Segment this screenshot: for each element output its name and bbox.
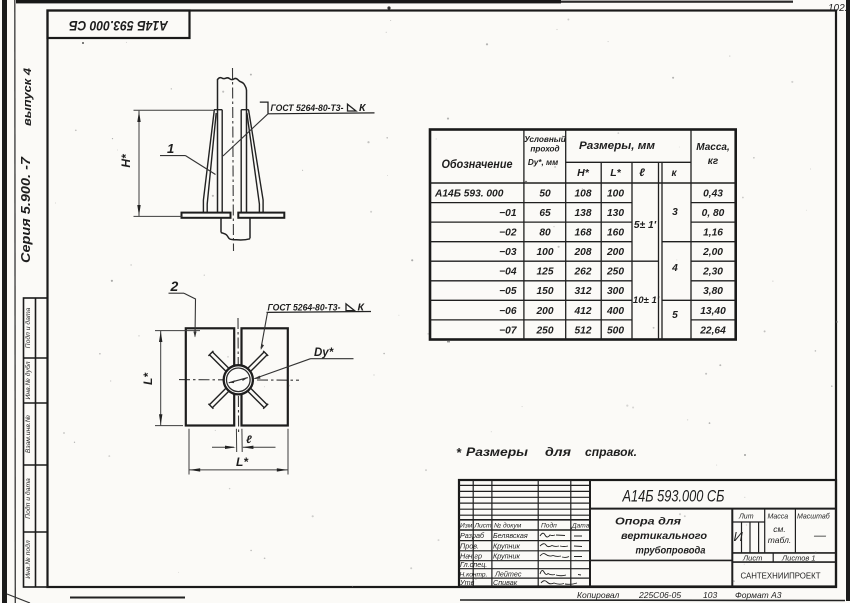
svg-text:Белявская: Белявская [493, 531, 528, 540]
svg-text:трубопровода: трубопровода [636, 545, 706, 557]
svg-text:2,00: 2,00 [702, 247, 723, 258]
svg-text:Размеры: Размеры [466, 447, 528, 459]
svg-text:1,16: 1,16 [703, 228, 723, 239]
svg-text:ГОСТ 5264-80-Т3-: ГОСТ 5264-80-Т3- [271, 103, 344, 113]
svg-text:160: 160 [607, 228, 624, 239]
svg-text:500: 500 [607, 325, 624, 336]
svg-text:4: 4 [671, 263, 678, 274]
svg-text:Формат А3: Формат А3 [735, 590, 782, 600]
svg-text:№ докум: № докум [494, 522, 522, 530]
svg-text:300: 300 [607, 286, 624, 297]
svg-text:65: 65 [539, 208, 551, 219]
svg-text:проход: проход [530, 145, 559, 154]
svg-text:100: 100 [537, 247, 554, 258]
svg-text:80: 80 [539, 228, 551, 239]
svg-text:103: 103 [703, 590, 717, 600]
svg-text:*: * [456, 445, 462, 460]
svg-text:Н*: Н* [577, 167, 590, 179]
svg-text:13,40: 13,40 [700, 306, 726, 317]
svg-text:Листов 1: Листов 1 [781, 554, 816, 563]
svg-text:справок.: справок. [585, 447, 637, 459]
svg-text:L*: L* [141, 372, 155, 385]
svg-text:3: 3 [672, 207, 678, 218]
svg-text:−05: −05 [499, 286, 517, 297]
svg-text:400: 400 [606, 306, 624, 317]
svg-text:200: 200 [536, 306, 554, 317]
svg-text:108: 108 [575, 189, 592, 200]
svg-text:208: 208 [574, 247, 592, 258]
svg-text:Разраб: Разраб [460, 531, 485, 540]
svg-text:Масса: Масса [768, 514, 789, 521]
svg-text:Копировал: Копировал [577, 590, 619, 600]
svg-text:L*: L* [236, 455, 249, 469]
svg-text:А14Б 593.000 СБ: А14Б 593.000 СБ [622, 488, 725, 506]
svg-text:Инв.№ подл: Инв.№ подл [24, 540, 32, 579]
svg-text:Опора для: Опора для [615, 516, 681, 528]
svg-text:А14Б 593. 000: А14Б 593. 000 [434, 189, 504, 200]
svg-text:312: 312 [575, 286, 592, 297]
svg-text:100: 100 [607, 189, 624, 200]
svg-text:вертикального: вертикального [621, 530, 708, 542]
svg-text:0,43: 0,43 [703, 189, 723, 200]
svg-text:Масштаб: Масштаб [797, 513, 831, 521]
svg-text:К: К [359, 102, 367, 114]
svg-text:5± 1′: 5± 1′ [634, 220, 657, 231]
svg-text:5: 5 [672, 310, 678, 321]
svg-text:L*: L* [610, 167, 621, 179]
svg-text:Н*: Н* [119, 153, 133, 168]
svg-text:Утв: Утв [459, 578, 475, 587]
svg-text:И: И [734, 529, 744, 544]
svg-text:200: 200 [606, 247, 624, 258]
svg-text:−02: −02 [499, 228, 517, 239]
svg-text:Крупник: Крупник [493, 542, 520, 551]
svg-text:262: 262 [574, 267, 592, 278]
svg-text:ℓ: ℓ [246, 434, 252, 446]
svg-text:102.: 102. [828, 3, 847, 14]
svg-text:Спивак: Спивак [493, 578, 518, 587]
svg-text:Условный: Условный [524, 135, 566, 144]
svg-text:1: 1 [167, 141, 174, 156]
svg-text:—: — [813, 528, 827, 542]
svg-text:−01: −01 [499, 208, 517, 219]
svg-text:Пров.: Пров. [460, 542, 479, 551]
svg-text:2,30: 2,30 [702, 267, 723, 278]
svg-text:Гл.спец.: Гл.спец. [460, 560, 487, 569]
svg-text:125: 125 [537, 267, 554, 278]
svg-text:табл.: табл. [768, 535, 791, 545]
svg-text:150: 150 [537, 286, 554, 297]
svg-text:168: 168 [575, 228, 592, 239]
svg-text:кг: кг [708, 156, 719, 167]
svg-text:Лист: Лист [742, 554, 762, 563]
svg-text:Подп и дата: Подп и дата [24, 478, 32, 519]
svg-text:−06: −06 [499, 306, 517, 317]
svg-text:22,64: 22,64 [699, 325, 726, 336]
svg-text:250: 250 [606, 267, 624, 278]
svg-text:к: к [671, 168, 677, 179]
svg-text:Подп: Подп [541, 522, 557, 530]
svg-text:Взам.инв.№: Взам.инв.№ [25, 415, 32, 453]
svg-text:0, 80: 0, 80 [702, 208, 725, 219]
svg-text:Обозначение: Обозначение [442, 159, 514, 171]
svg-text:выпуск 4: выпуск 4 [22, 68, 34, 126]
svg-text:Подп и дата: Подп и дата [24, 307, 32, 348]
svg-text:10± 1′: 10± 1′ [633, 295, 660, 306]
svg-text:Инв.№ дубл: Инв.№ дубл [24, 361, 32, 399]
svg-text:250: 250 [536, 325, 554, 336]
svg-text:−07: −07 [499, 325, 518, 336]
svg-text:для: для [545, 447, 571, 459]
svg-text:Лист: Лист [474, 523, 492, 530]
svg-text:Размеры, мм: Размеры, мм [579, 140, 655, 152]
svg-text:Масса,: Масса, [696, 142, 729, 153]
svg-text:ℓ: ℓ [639, 167, 645, 179]
svg-text:50: 50 [539, 189, 551, 200]
svg-text:А14Б 593.000 СБ: А14Б 593.000 СБ [69, 18, 169, 34]
svg-text:−04: −04 [499, 267, 517, 278]
svg-text:см.: см. [773, 524, 785, 534]
svg-text:412: 412 [574, 306, 592, 317]
svg-text:Dу*: Dу* [314, 347, 334, 359]
svg-text:−03: −03 [499, 247, 517, 258]
svg-text:Изм: Изм [460, 523, 473, 530]
svg-text:Крупник: Крупник [493, 552, 520, 561]
svg-text:2: 2 [170, 278, 179, 294]
svg-text:Серия 5.900. -7: Серия 5.900. -7 [18, 156, 33, 263]
svg-text:Дата: Дата [571, 523, 590, 530]
svg-text:512: 512 [575, 325, 592, 336]
svg-text:138: 138 [575, 208, 592, 219]
svg-text:ГОСТ 5264-80-Т3-: ГОСТ 5264-80-Т3- [268, 303, 341, 313]
svg-text:Лит: Лит [738, 514, 754, 521]
svg-text:Dу*, мм: Dу*, мм [528, 158, 558, 167]
svg-text:3,80: 3,80 [703, 286, 723, 297]
svg-text:130: 130 [607, 208, 624, 219]
svg-text:225С06-05: 225С06-05 [638, 590, 681, 600]
svg-text:САНТЕХНИИПРОЕКТ: САНТЕХНИИПРОЕКТ [741, 571, 821, 581]
